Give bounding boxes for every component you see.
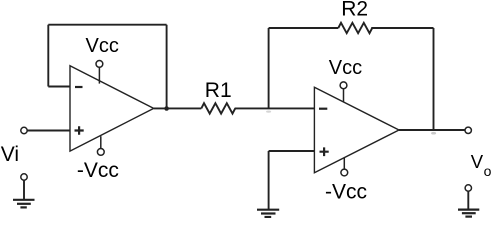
wire U1 output to R1 (154, 107, 202, 109)
wire R2 left horizontal (269, 27, 339, 29)
terminal Vo output circle (465, 127, 471, 133)
wire U1 Vcc stem (98, 67, 100, 83)
wire U2 Vcc stem (343, 89, 345, 102)
terminal U1 -Vcc circle (97, 149, 104, 156)
terminal Vi input circle (21, 127, 27, 133)
wire U1 feedback left vertical (47, 25, 49, 87)
wire U1 feedback right vertical (166, 25, 168, 109)
svg-text:-Vcc: -Vcc (325, 180, 367, 203)
svg-text:V: V (471, 151, 484, 172)
svg-text:Vi: Vi (1, 143, 19, 166)
ground under U2 plus input (257, 210, 279, 217)
svg-text:-Vcc: -Vcc (77, 159, 119, 182)
terminal U2 Vcc circle (340, 82, 347, 89)
resistor R2 (338, 23, 372, 33)
wire Vi input (27, 130, 70, 132)
wire R2 branch left vertical (268, 28, 270, 108)
svg-text:o: o (484, 163, 492, 179)
op-amp U2 (314, 87, 399, 172)
node U1 output junction dot (164, 106, 169, 111)
svg-text:Vcc: Vcc (329, 57, 362, 79)
U1 inverting pin minus sign (75, 86, 83, 88)
op-amp U1 (70, 66, 154, 151)
svg-text:Vcc: Vcc (86, 35, 119, 57)
wire R2 right vertical to output (433, 28, 435, 130)
wire U2 non-inverting input (269, 150, 315, 152)
terminal U1 Vcc circle (96, 61, 103, 68)
wire R1 to U2 inverting input (235, 107, 315, 109)
resistor R1 (201, 103, 235, 113)
svg-text:R2: R2 (341, 0, 368, 20)
wire U2 -Vcc stem (343, 158, 345, 170)
U2 inverting pin minus sign (319, 108, 327, 110)
ground under Vi (13, 174, 35, 208)
ground under Vo (458, 185, 479, 217)
node R2-branch T faint mark (266, 111, 271, 113)
U2 non-inverting pin plus sign (320, 147, 329, 156)
wire U1 feedback top (48, 24, 166, 26)
node R2-output T faint mark (431, 132, 436, 135)
terminal U2 -Vcc circle (341, 169, 348, 176)
wire R2 right horizontal (371, 27, 433, 29)
wire U1 inverting input (48, 86, 70, 88)
wire U1 -Vcc stem (100, 136, 102, 148)
wire ground drop from U2 plus input (268, 151, 270, 210)
wire U2 output (399, 129, 465, 131)
U1 non-inverting pin plus sign (75, 126, 84, 135)
svg-text:R1: R1 (205, 79, 232, 102)
